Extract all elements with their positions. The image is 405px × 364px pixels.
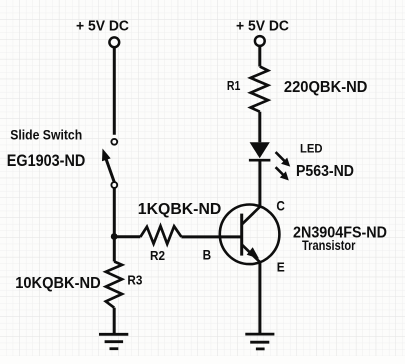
svg-text:P563-ND: P563-ND xyxy=(296,163,354,180)
svg-text:C: C xyxy=(276,198,285,213)
svg-text:Transistor: Transistor xyxy=(302,238,356,253)
svg-text:220QBK-ND: 220QBK-ND xyxy=(284,79,368,96)
svg-text:Slide Switch: Slide Switch xyxy=(10,127,82,142)
wire from left terminal to switch top contact xyxy=(113,47,116,134)
LED D1 triangle xyxy=(250,142,270,158)
wire node A to resistor R2 xyxy=(114,235,140,238)
wire resistor R3 to ground xyxy=(113,308,116,334)
LED light arrow 2 xyxy=(276,167,289,180)
node A junction dot xyxy=(111,233,118,240)
power terminal +5V DC right xyxy=(255,36,265,46)
ground left xyxy=(99,334,128,348)
resistor R3 xyxy=(106,262,122,308)
wire from switch bottom contact to node A xyxy=(113,188,116,262)
transistor Q1 base bar xyxy=(240,214,243,256)
wire transistor emitter to ground xyxy=(258,262,261,334)
svg-text:E: E xyxy=(277,259,285,274)
resistor R2 xyxy=(140,226,181,244)
switch S1 bottom contact xyxy=(111,182,117,188)
wire resistor R2 to transistor base xyxy=(181,235,240,238)
svg-text:LED: LED xyxy=(300,141,323,155)
switch S1 top contact xyxy=(111,139,117,145)
svg-text:+ 5V DC: + 5V DC xyxy=(76,19,129,35)
transistor Q1 circle xyxy=(220,205,280,265)
LED light arrow 1 xyxy=(276,152,291,167)
wire right terminal to resistor R1 xyxy=(258,46,261,66)
svg-text:R3: R3 xyxy=(127,274,142,288)
svg-text:R1: R1 xyxy=(227,79,241,93)
switch S1 blade with arrow xyxy=(102,149,114,183)
svg-text:B: B xyxy=(203,248,212,263)
wire resistor R1 to LED anode xyxy=(258,112,261,143)
transistor Q1 collector stroke xyxy=(242,207,260,225)
wire LED cathode to transistor collector xyxy=(258,160,261,207)
svg-text:1KQBK-ND: 1KQBK-ND xyxy=(138,201,222,218)
svg-text:10KQBK-ND: 10KQBK-ND xyxy=(15,275,101,292)
power terminal +5V DC left xyxy=(109,37,119,47)
svg-text:+ 5V DC: + 5V DC xyxy=(236,19,289,35)
ground right xyxy=(245,334,274,349)
svg-text:R2: R2 xyxy=(150,249,165,263)
resistor R1 xyxy=(251,67,268,112)
LED D1 cathode bar xyxy=(249,159,271,162)
svg-text:EG1903-ND: EG1903-ND xyxy=(7,152,86,170)
transistor Q1 emitter stroke with arrow xyxy=(242,245,260,263)
